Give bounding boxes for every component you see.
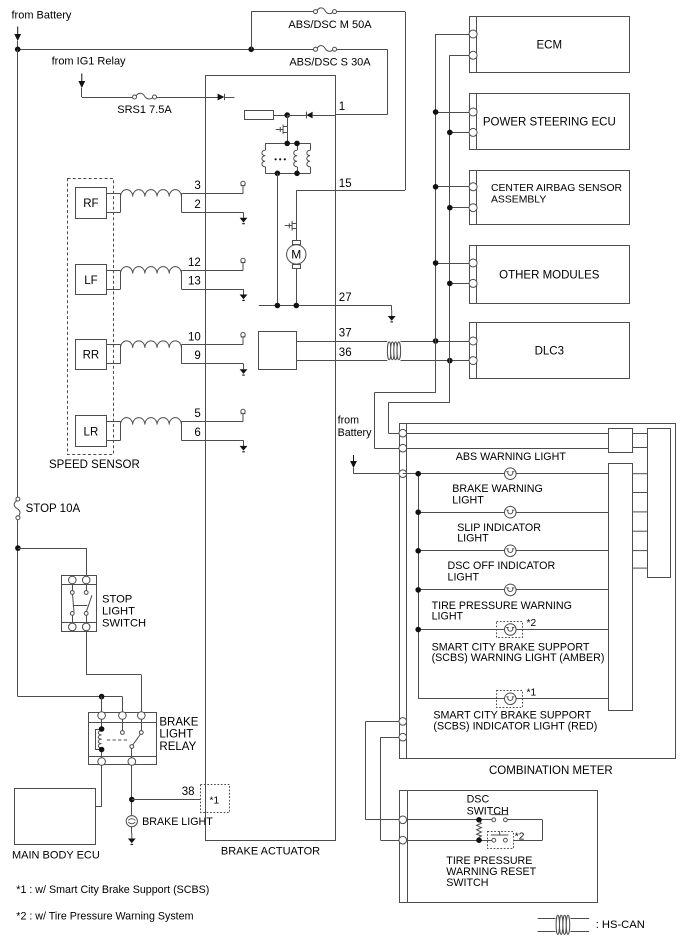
wire battery bus y=49 to S30A fuse bbox=[18, 49, 314, 51]
fuse ABS/DSC M 50A bbox=[314, 8, 337, 14]
svg-text:9: 9 bbox=[194, 350, 200, 362]
fuse ABS/DSC S 30A bbox=[314, 46, 337, 52]
wire CAN-L bus vertical bbox=[449, 55, 451, 402]
svg-text:LF: LF bbox=[84, 275, 97, 287]
junction lamp bus row 1 bbox=[415, 471, 421, 477]
wire indicator row 1 bbox=[403, 473, 609, 475]
junction CAN-L bus / DLC3 bbox=[447, 358, 453, 364]
wire stub CAN-H to POWER STEERING ECU bbox=[436, 112, 470, 114]
junction brake light / pin 38 bbox=[129, 797, 135, 803]
terminal LF signal bbox=[241, 258, 246, 270]
junction CAN-L CENTER AIRBAG SENSOR bbox=[447, 205, 453, 211]
svg-text:RR: RR bbox=[83, 350, 100, 362]
solenoid valve assembly rails bbox=[265, 143, 310, 145]
wire STOP fuse to relay feed bbox=[17, 520, 19, 697]
wire indicator row 3 bbox=[418, 550, 609, 552]
pin connector circles POWER STEERING ECU bbox=[469, 108, 477, 116]
module box ECM bbox=[470, 16, 630, 72]
meter gauge unit box bbox=[648, 429, 671, 578]
solenoid coil L1 bbox=[265, 143, 267, 150]
junction CAN-H POWER STEERING ECU bbox=[433, 109, 439, 115]
svg-text:OTHER MODULES: OTHER MODULES bbox=[499, 270, 600, 282]
ground RF return bbox=[240, 212, 248, 223]
wire RF pair split to actuator pins bbox=[181, 193, 243, 195]
dashed option box pin 38 bbox=[201, 785, 230, 813]
svg-text:MAIN BODY ECU: MAIN BODY ECU bbox=[12, 850, 100, 862]
brake light bulb bbox=[126, 816, 137, 827]
switch SW1 DSC momentary contact bbox=[491, 811, 509, 822]
terminal RF signal bbox=[241, 181, 246, 193]
svg-text:LR: LR bbox=[84, 426, 99, 438]
svg-text:LIGHT: LIGHT bbox=[452, 495, 484, 507]
module box DLC3 bbox=[470, 322, 630, 379]
svg-text:BRAKE WARNING: BRAKE WARNING bbox=[452, 483, 542, 495]
svg-text:from IG1 Relay: from IG1 Relay bbox=[52, 56, 126, 68]
pin connector circles combination meter bottom bbox=[399, 718, 407, 726]
dashed option box tire pressure reset switch bbox=[488, 832, 514, 849]
svg-text:13: 13 bbox=[188, 276, 201, 288]
junction node battery bus / M50A branch bbox=[248, 47, 254, 53]
svg-text:36: 36 bbox=[339, 347, 352, 359]
fuse STOP 10A bbox=[14, 497, 20, 520]
svg-text:RF: RF bbox=[83, 198, 98, 210]
junction solenoid rail top bbox=[284, 141, 290, 147]
svg-text:15: 15 bbox=[339, 178, 352, 190]
svg-text:38: 38 bbox=[182, 786, 195, 798]
dashed option box around lamp bbox=[497, 622, 523, 638]
svg-text:6: 6 bbox=[194, 427, 200, 439]
wire to stop light switch bbox=[18, 548, 86, 550]
wire stub CAN-L to CENTER AIRBAG SENSOR bbox=[450, 207, 469, 209]
wire meter pin to DSC switch upper bbox=[366, 721, 399, 723]
junction lamp bus row 2 bbox=[415, 509, 421, 515]
svg-text:LIGHT: LIGHT bbox=[457, 533, 489, 545]
pin connector circles CENTER AIRBAG SENSOR bbox=[469, 183, 477, 191]
motor M1 pump motor bbox=[287, 245, 306, 264]
wire CAN-H bus vertical bbox=[435, 34, 437, 393]
svg-text:DSC: DSC bbox=[467, 794, 490, 806]
wire LF pair split to actuator pins bbox=[181, 270, 243, 272]
relay contact lever bbox=[121, 719, 144, 757]
wire RR pair split to actuator pins bbox=[181, 344, 243, 346]
wire indicator row 6 bbox=[418, 698, 609, 700]
wire RF upper lead to twisted pair bbox=[107, 193, 121, 195]
main body ECU box bbox=[15, 789, 96, 845]
motor M1 brush cap bottom bbox=[293, 265, 301, 269]
wire DSC switch row bbox=[407, 819, 492, 821]
svg-text:LIGHT: LIGHT bbox=[102, 606, 135, 618]
stop light switch terminals top bbox=[69, 576, 77, 584]
speed sensor LF box bbox=[76, 265, 107, 295]
svg-text:CENTER AIRBAG SENSOR: CENTER AIRBAG SENSOR bbox=[491, 183, 623, 194]
junction lamp bus row 3 bbox=[415, 548, 421, 554]
wire relay output to brake light bbox=[131, 765, 133, 815]
wire stop light switch to relay bbox=[86, 631, 88, 675]
ground LR return bbox=[240, 440, 248, 451]
wire resistor to node bbox=[273, 115, 287, 117]
diode D2 (pointing left) to pin 1 bbox=[306, 112, 308, 119]
junction lamp bus row 4 bbox=[415, 587, 421, 593]
svg-text:1: 1 bbox=[339, 101, 345, 113]
dashed option box around lamp bbox=[497, 691, 523, 708]
internal regulator resistor block bbox=[245, 111, 274, 120]
wire stub CAN-L to POWER STEERING ECU bbox=[450, 132, 469, 134]
junction lamp bus row 5 bbox=[415, 627, 421, 633]
svg-text:2: 2 bbox=[194, 199, 200, 211]
wire motor to pin 27 net bbox=[296, 268, 298, 305]
transistor Q1 solenoid driver mosfet bbox=[276, 115, 288, 143]
switch SW2 tire pressure reset contact bbox=[491, 831, 509, 842]
wire indicator row 4 bbox=[418, 589, 609, 591]
junction relay coil bottom bbox=[99, 747, 105, 753]
svg-text:Battery: Battery bbox=[338, 427, 373, 439]
wire battery feed to meter pin bbox=[353, 468, 355, 474]
brake actuator box bbox=[206, 76, 336, 841]
svg-text:*1: *1 bbox=[210, 796, 220, 807]
relay coil K1 bbox=[95, 719, 102, 757]
terminal RR signal bbox=[241, 333, 246, 345]
junction CAN-L POWER STEERING ECU bbox=[447, 130, 453, 136]
pin connector circles OTHER MODULES bbox=[469, 259, 477, 267]
wire LR pair split to actuator pins bbox=[181, 421, 243, 423]
wire LF upper lead to twisted pair bbox=[107, 270, 121, 272]
pin connector circles combination meter top bbox=[399, 429, 407, 437]
wire stub CAN-H to CENTER AIRBAG SENSOR bbox=[436, 186, 470, 188]
stop light switch contacts bbox=[70, 584, 92, 623]
svg-text:LIGHT: LIGHT bbox=[448, 571, 480, 583]
lamp BRAKE WARNING bbox=[505, 506, 517, 518]
node solenoid driver bbox=[284, 112, 290, 118]
battery feed arrow to meter bbox=[350, 455, 357, 468]
wire battery vertical into bus bbox=[17, 41, 19, 49]
wire CAN row 1 inside meter bbox=[407, 433, 609, 435]
wire M50A branch up and across bbox=[251, 12, 253, 50]
terminal LR signal bbox=[241, 409, 246, 421]
wire IG1 to SRS1 fuse to actuator bbox=[81, 88, 83, 97]
twisted pair wave RF bbox=[121, 190, 182, 197]
junction reset row / resistor bbox=[476, 837, 482, 843]
wire RR upper lead to twisted pair bbox=[107, 344, 121, 346]
junction DSC row / resistor bbox=[476, 817, 482, 823]
svg-text:RELAY: RELAY bbox=[159, 741, 196, 753]
twisted pair symbol on CAN lines bbox=[387, 342, 400, 360]
ground brake light bbox=[131, 827, 133, 833]
stop light switch body bbox=[62, 576, 97, 632]
wire CAN-H top to ECM bbox=[436, 34, 470, 36]
svg-text:LIGHT: LIGHT bbox=[432, 611, 464, 623]
svg-text:(SCBS) INDICATOR LIGHT (RED): (SCBS) INDICATOR LIGHT (RED) bbox=[433, 720, 597, 732]
lamp DSC OFF INDICATOR bbox=[505, 584, 517, 596]
wire LF lower lead to twisted pair bbox=[107, 289, 121, 291]
meter lamp driver box bbox=[609, 464, 633, 711]
wire S30A down to actuator pin 1 bbox=[387, 49, 389, 115]
wire junction down to relay pin 1 bbox=[101, 697, 103, 712]
IG1 feed arrow bbox=[78, 74, 85, 89]
junction battery feed / left stop branch bbox=[15, 47, 21, 53]
svg-text:SRS1 7.5A: SRS1 7.5A bbox=[117, 104, 172, 116]
svg-text:DLC3: DLC3 bbox=[535, 346, 564, 358]
wire pin 15 into pump motor branch bbox=[296, 190, 335, 192]
wire solenoid return down to pin 27 net bbox=[277, 173, 279, 305]
diode D1 on IG1 input bbox=[206, 97, 218, 99]
wire battery left vertical to STOP fuse bbox=[17, 49, 19, 497]
svg-text:SWITCH: SWITCH bbox=[467, 805, 509, 817]
junction CAN-H CENTER AIRBAG SENSOR bbox=[433, 184, 439, 190]
svg-text:5: 5 bbox=[194, 408, 200, 420]
wire lamp supply bus vertical bbox=[418, 474, 420, 699]
dots between solenoid coils bbox=[275, 158, 277, 160]
wire CAN row 2 inside meter bbox=[407, 448, 609, 450]
svg-text:SPEED SENSOR: SPEED SENSOR bbox=[49, 459, 140, 471]
junction solenoid return / 27 net bbox=[275, 303, 281, 309]
combination meter box bbox=[400, 424, 676, 759]
wire stub CAN-L to OTHER MODULES bbox=[450, 283, 469, 285]
junction motor return / 27 net bbox=[294, 303, 300, 309]
svg-text:from: from bbox=[338, 415, 359, 427]
svg-text:ECM: ECM bbox=[537, 40, 563, 52]
wire pin 27 ground net bbox=[259, 305, 392, 307]
solenoid coil L2 bbox=[297, 143, 299, 150]
pin connector circles ECM bbox=[469, 30, 477, 38]
relay terminals bottom bbox=[98, 758, 106, 766]
HS-CAN legend twisted pair symbol bbox=[538, 915, 590, 934]
CAN controller box inside actuator bbox=[259, 332, 297, 370]
junction relay coil top bbox=[99, 726, 105, 732]
svg-text:*1 : w/ Smart City Brake Suppo: *1 : w/ Smart City Brake Support (SCBS) bbox=[16, 884, 209, 896]
brake light relay body bbox=[88, 713, 156, 765]
wire CAN-H bus jog to meter bbox=[374, 392, 435, 394]
meter CAN transceiver box bbox=[609, 429, 633, 453]
svg-text:37: 37 bbox=[339, 328, 352, 340]
svg-text:*2 : w/ Tire Pressure Warning: *2 : w/ Tire Pressure Warning System bbox=[16, 911, 193, 923]
svg-text:BRAKE ACTUATOR: BRAKE ACTUATOR bbox=[221, 846, 320, 858]
ground pin 27 bbox=[391, 306, 393, 311]
svg-text:SWITCH: SWITCH bbox=[446, 877, 488, 889]
ground LF return bbox=[240, 289, 248, 300]
ground RR return bbox=[240, 364, 248, 375]
meter internal ladder rungs bbox=[633, 474, 647, 568]
twisted pair wave RR bbox=[121, 341, 182, 348]
svg-text:(SCBS) WARNING LIGHT (AMBER): (SCBS) WARNING LIGHT (AMBER) bbox=[432, 652, 605, 664]
wire feed down to relay pin 2 bbox=[122, 697, 124, 712]
wire RR lower lead to twisted pair bbox=[107, 363, 121, 365]
svg-text:ABS/DSC M 50A: ABS/DSC M 50A bbox=[288, 19, 372, 31]
wire LR upper lead to twisted pair bbox=[107, 421, 121, 423]
wire tire pressure reset row bbox=[407, 840, 492, 842]
motor M1 brush cap top bbox=[293, 241, 301, 245]
solenoid coil L3 bbox=[310, 143, 312, 150]
svg-text:LIGHT: LIGHT bbox=[159, 729, 193, 741]
lamp ABS WARNING LIGHT bbox=[505, 468, 517, 480]
wire CAN-L bus jog to meter bbox=[388, 402, 449, 404]
wire indicator row 2 bbox=[418, 512, 609, 514]
wire node to diode D2 bbox=[287, 115, 306, 117]
svg-text:: HS-CAN: : HS-CAN bbox=[596, 919, 645, 931]
svg-text:12: 12 bbox=[188, 257, 201, 269]
transistor Q2 pump motor mosfet bbox=[285, 190, 297, 241]
svg-text:ASSEMBLY: ASSEMBLY bbox=[491, 194, 546, 205]
lamp SMART CITY BRAKE SUPPORT bbox=[505, 693, 517, 705]
junction CAN-H OTHER MODULES bbox=[433, 260, 439, 266]
svg-text:STOP: STOP bbox=[102, 594, 132, 606]
svg-text:*2: *2 bbox=[515, 831, 525, 842]
wire indicator row 5 bbox=[418, 629, 609, 631]
relay linkage dashed bbox=[107, 739, 129, 741]
svg-text:3: 3 bbox=[194, 180, 200, 192]
svg-text:SWITCH: SWITCH bbox=[102, 618, 146, 630]
wire LR lower lead to twisted pair bbox=[107, 440, 121, 442]
svg-text:BRAKE: BRAKE bbox=[159, 717, 198, 729]
svg-text:10: 10 bbox=[188, 331, 201, 343]
junction solenoid rail bottom bbox=[275, 171, 281, 177]
svg-text:BRAKE LIGHT: BRAKE LIGHT bbox=[142, 816, 213, 828]
wire pin 38 to actuator bbox=[132, 799, 201, 801]
svg-text:*1: *1 bbox=[527, 687, 537, 698]
wire pin 37 H-CAN bbox=[297, 341, 387, 343]
junction CAN-H bus / DLC3 bbox=[433, 338, 439, 344]
module box OTHER MODULES bbox=[470, 246, 630, 304]
svg-text:27: 27 bbox=[339, 292, 352, 304]
junction CAN-L OTHER MODULES bbox=[447, 281, 453, 287]
svg-text:POWER STEERING ECU: POWER STEERING ECU bbox=[483, 117, 616, 129]
junction stop light switch branch bbox=[15, 545, 21, 551]
battery feed arrow bbox=[14, 27, 21, 42]
svg-text:*2: *2 bbox=[527, 618, 537, 629]
svg-text:COMBINATION METER: COMBINATION METER bbox=[489, 765, 613, 777]
wire CAN-L top to ECM bbox=[450, 55, 469, 57]
wire pin 36 L-CAN bbox=[297, 360, 387, 362]
svg-text:DSC OFF INDICATOR: DSC OFF INDICATOR bbox=[448, 560, 556, 572]
svg-text:STOP 10A: STOP 10A bbox=[26, 503, 81, 515]
speed sensor LR box bbox=[76, 416, 107, 447]
wire relay to main body ECU bbox=[101, 765, 103, 807]
speed sensor dashed enclosure bbox=[68, 179, 114, 455]
twisted pair wave LF bbox=[121, 267, 182, 274]
speed sensor RR box bbox=[76, 340, 107, 370]
module box POWER STEERING ECU bbox=[470, 93, 630, 150]
wire stubs transceiver to gauge unit bbox=[633, 433, 647, 435]
lamp TIRE PRESSURE WARNING bbox=[505, 624, 517, 636]
svg-text:M: M bbox=[291, 248, 301, 262]
wire DSC contact to return loop bbox=[507, 819, 542, 821]
svg-text:ABS/DSC S 30A: ABS/DSC S 30A bbox=[289, 57, 371, 69]
speed sensor RF box bbox=[76, 188, 107, 219]
svg-text:ABS WARNING LIGHT: ABS WARNING LIGHT bbox=[456, 451, 567, 463]
fuse SRS1 7.5A bbox=[133, 93, 157, 99]
svg-text:from Battery: from Battery bbox=[12, 10, 72, 22]
lamp SLIP INDICATOR bbox=[505, 545, 517, 557]
DSC / tire pressure switch box bbox=[400, 791, 598, 903]
wire meter pin to DSC switch lower bbox=[381, 737, 399, 739]
wire RF lower lead to twisted pair bbox=[107, 212, 121, 214]
pin connector circles switch box bbox=[399, 816, 407, 824]
relay terminals top bbox=[98, 712, 106, 720]
wire M50A down to actuator pin 15 bbox=[405, 12, 407, 190]
junction relay coil feed bbox=[99, 694, 105, 700]
twisted pair wave LR bbox=[121, 418, 182, 425]
pin connector circles DLC3 bbox=[469, 337, 477, 345]
stop light switch terminals bottom bbox=[69, 623, 77, 631]
module box CENTER AIRBAG SENSOR bbox=[470, 170, 630, 224]
wire battery to relay coil feed bbox=[18, 696, 123, 698]
wire stub CAN-H to OTHER MODULES bbox=[436, 263, 470, 265]
resistor R1 vertical zigzag bbox=[477, 822, 482, 838]
